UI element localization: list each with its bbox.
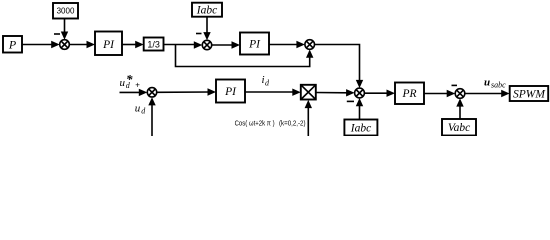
block PR (395, 83, 424, 105)
svg-text:*: * (126, 72, 133, 87)
wire PI3 to multiplier (245, 91, 295, 93)
multiplier box (301, 85, 316, 100)
svg-text:u: u (484, 77, 490, 89)
arrowhead into sum3 (296, 41, 305, 48)
summing junction S3 (305, 40, 315, 50)
arrowhead into sum5 (447, 90, 456, 97)
svg-text:PI: PI (248, 39, 261, 51)
svg-text:Vabc: Vabc (448, 122, 470, 134)
wire multiplier to sum4 (316, 92, 348, 94)
summing junction S5 (455, 89, 465, 99)
arrowhead into sum4 from left (346, 89, 355, 96)
svg-text:1/3: 1/3 (147, 39, 160, 49)
arrowhead into 1/3 (135, 41, 144, 48)
svg-text:PI: PI (102, 39, 115, 51)
block PI1 (95, 32, 122, 56)
minus sign at S1 (54, 33, 60, 35)
Vabc wire up into sum5 (459, 105, 461, 120)
summing junction S2 (202, 40, 211, 49)
svg-text:PI: PI (224, 86, 237, 98)
arrowhead down into sum4 (356, 80, 363, 88)
arrowhead into PR (387, 90, 396, 97)
arrowhead into SPWM (501, 90, 510, 97)
svg-text:3000: 3000 (57, 7, 75, 16)
svg-text:+: + (135, 80, 140, 89)
arrowhead into sum1 (51, 41, 60, 48)
Vabc box (442, 119, 476, 136)
svg-text:PR: PR (401, 88, 416, 100)
wire P to sum1 (22, 44, 54, 46)
arrowhead into PI3 (208, 88, 217, 95)
block 1/3 (144, 38, 164, 51)
wire Iabc down to sum2 (206, 17, 208, 35)
summing junction S4 (355, 88, 365, 98)
arrowhead feedback up into sum3 (306, 50, 313, 58)
arrowhead Iabc down into sum2 (203, 32, 210, 40)
arrowhead into sum2 (194, 41, 203, 48)
Iabc lower box (344, 120, 377, 136)
feedback branch down from node (176, 45, 310, 67)
wire 1/3 to sum2 (164, 44, 197, 46)
summing junction SA (147, 88, 156, 97)
wire sum1 to PI1 (69, 44, 89, 46)
wire PI2 to sum3 (269, 44, 299, 46)
arrowhead cos up into multiplier (305, 100, 312, 108)
Iabc lower wire up into sum4 (359, 105, 361, 120)
minus sign at S5 (452, 84, 458, 86)
cos wire from bottom into multiplier (307, 106, 309, 136)
arrowhead Vabc up into sum5 (456, 98, 463, 106)
block PI3 (216, 80, 245, 103)
arrowhead into multiplier (292, 89, 301, 96)
arrowhead into sumA (139, 89, 148, 96)
wire PI1 to 1/3 (122, 44, 138, 46)
svg-text:u: u (135, 103, 141, 115)
svg-text:(k=0,2,-2): (k=0,2,-2) (279, 120, 306, 127)
lower input wire ud* (120, 91, 142, 93)
ud feedback wire from bottom (151, 104, 153, 137)
svg-text:Cos( ωt+2k π ): Cos( ωt+2k π ) (235, 120, 275, 127)
wire 3000 down to sum1 (64, 19, 66, 34)
minus sign at S2 (196, 33, 202, 35)
svg-text:Iabc: Iabc (350, 123, 371, 135)
summing junction S1 (60, 40, 70, 50)
arrowhead ud up into sumA (148, 97, 155, 105)
svg-text:Iabc: Iabc (196, 5, 217, 17)
3000 reference box (53, 3, 78, 19)
block P (3, 36, 22, 53)
block SPWM (510, 86, 549, 101)
arrowhead Iabc up into sum4 (356, 98, 363, 106)
svg-text:SPWM: SPWM (513, 88, 546, 100)
wire sum3 to sum4 (corner) (315, 45, 360, 82)
Iabc upper box (192, 3, 222, 17)
wire sum4 to PR (364, 92, 388, 94)
block PI2 (240, 33, 269, 55)
arrowhead 3000 down into sum1 (61, 32, 68, 40)
svg-text:P: P (8, 38, 17, 52)
arrowhead into PI2 (232, 41, 241, 48)
wire sum5 to SPWM (465, 93, 504, 95)
wire sum2 to PI2 (212, 44, 234, 46)
svg-text:u: u (120, 77, 126, 89)
wire PR to sum5 (424, 93, 450, 95)
minus sign at S4 (347, 100, 354, 102)
svg-text:sabc: sabc (491, 80, 506, 89)
arrowhead into PI1 (87, 41, 96, 48)
wire SA to PI3 (157, 91, 210, 93)
